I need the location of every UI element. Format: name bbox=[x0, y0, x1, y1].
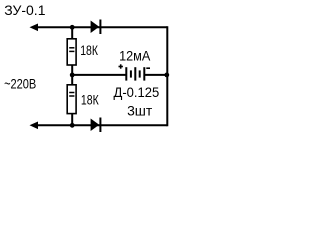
svg-text:18К: 18К bbox=[80, 42, 98, 58]
node junction dot bottom bbox=[70, 123, 75, 128]
resistor R2 18K bbox=[67, 85, 76, 114]
wire top rail bbox=[36, 26, 167, 28]
wire resistor R2 bottom lead bbox=[71, 114, 73, 126]
svg-text:~220В: ~220В bbox=[4, 75, 36, 91]
label - polarity bbox=[146, 67, 150, 69]
wire battery to right rail bbox=[144, 74, 167, 76]
node junction dot top bbox=[70, 25, 75, 30]
battery GB1 bbox=[126, 67, 144, 80]
node junction dot middle-right bbox=[164, 73, 169, 78]
wire resistor R2 top lead bbox=[71, 75, 73, 85]
wire resistor top lead bbox=[71, 27, 73, 39]
svg-text:18К: 18К bbox=[81, 91, 99, 107]
wire middle to battery bbox=[72, 74, 126, 76]
svg-text:Д-0.125: Д-0.125 bbox=[114, 84, 160, 100]
diode VD1 bbox=[91, 20, 101, 35]
node junction dot middle-left bbox=[70, 73, 75, 78]
diode VD2 bbox=[91, 118, 101, 133]
svg-text:ЗУ-0.1: ЗУ-0.1 bbox=[4, 2, 46, 18]
svg-text:3шт: 3шт bbox=[127, 103, 153, 119]
label + polarity bbox=[119, 64, 123, 68]
wire bottom rail bbox=[36, 124, 167, 126]
svg-text:12мА: 12мА bbox=[119, 47, 151, 63]
resistor R1 18K bbox=[67, 39, 76, 65]
terminal arrow bottom-left bbox=[30, 122, 39, 130]
wire right rail bbox=[166, 26, 168, 126]
wire resistor R1 bottom lead bbox=[71, 65, 73, 75]
terminal arrow top-left bbox=[30, 24, 39, 32]
